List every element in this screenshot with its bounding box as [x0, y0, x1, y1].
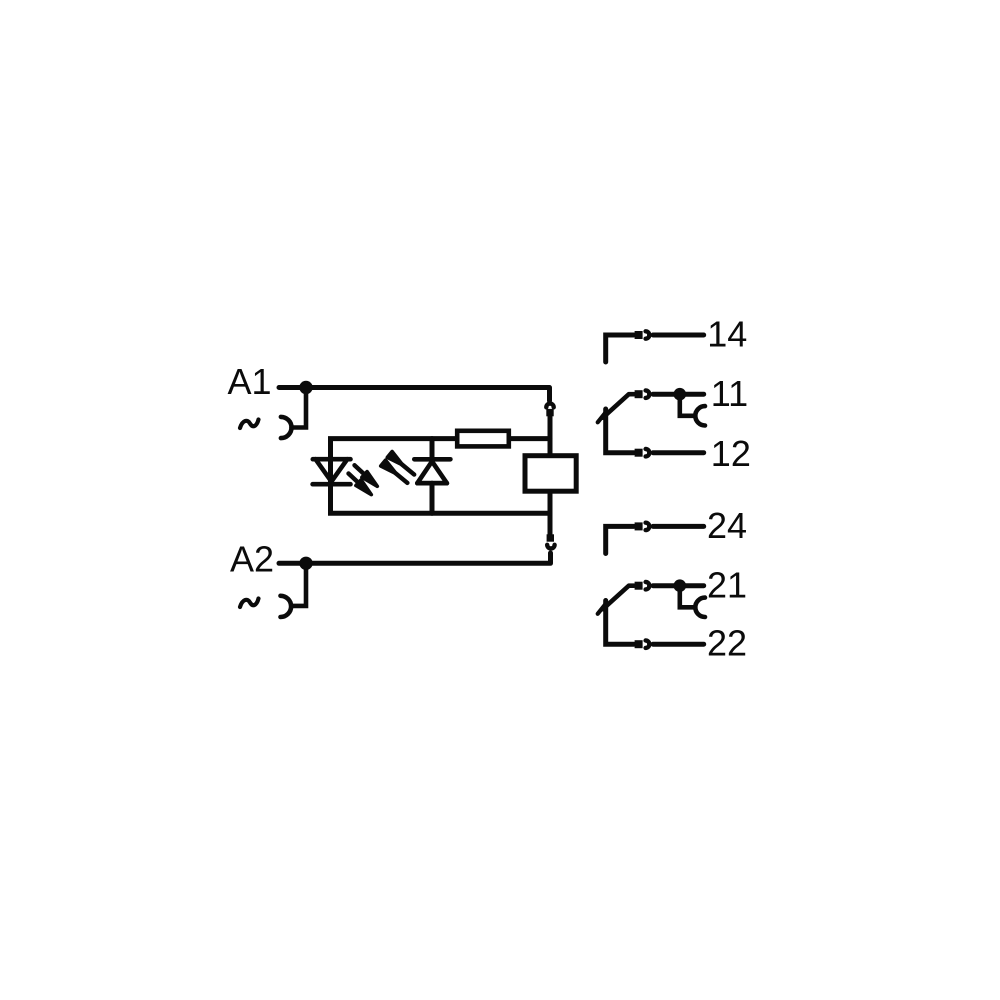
- svg-text:A2: A2: [230, 539, 274, 580]
- svg-text:24: 24: [707, 505, 747, 546]
- svg-text:12: 12: [711, 433, 751, 474]
- svg-text:21: 21: [707, 564, 747, 605]
- svg-text:22: 22: [707, 623, 747, 664]
- svg-text:A1: A1: [228, 361, 272, 402]
- svg-text:14: 14: [707, 313, 747, 354]
- svg-text:11: 11: [711, 373, 748, 414]
